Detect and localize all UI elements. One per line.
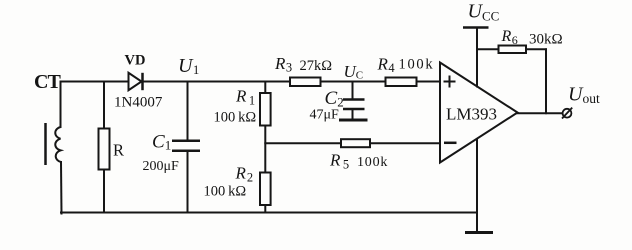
- wire C1 to bottom rail: [187, 152, 189, 213]
- transformer CT core bar: [44, 123, 47, 165]
- svg-text:100k: 100k: [399, 57, 435, 73]
- wire top rail R3-to-R4: [321, 81, 386, 83]
- wire opamp to ground: [476, 140, 478, 232]
- power Ucc bar: [463, 26, 489, 29]
- wire opamp output: [518, 112, 562, 114]
- svg-text:CT: CT: [34, 71, 61, 93]
- wire R6 right: [526, 48, 546, 50]
- resistor R2: [260, 173, 271, 206]
- svg-text:100 kΩ: 100 kΩ: [214, 110, 257, 126]
- svg-text:R: R: [113, 141, 124, 160]
- op-amp U LM393: [440, 63, 518, 163]
- wire Ucc to R6: [477, 48, 499, 50]
- svg-text:LM393: LM393: [446, 105, 497, 124]
- wire R1-R2 middle: [264, 126, 266, 173]
- wire left vertical lower: [60, 162, 63, 214]
- wire R top stub: [103, 82, 105, 129]
- wire bottom rail: [61, 212, 477, 214]
- wire R2 bottom stub: [264, 205, 266, 213]
- wire C2 lower stub: [352, 109, 354, 119]
- wire R6 down to output: [545, 49, 547, 113]
- resistor R: [99, 129, 110, 170]
- opamp minus input sign: [444, 142, 457, 145]
- resistor R4: [386, 78, 417, 87]
- wire node U1 vertical to C1: [187, 82, 189, 141]
- wire Ucc vertical to opamp: [476, 29, 478, 87]
- ground: [465, 231, 493, 234]
- wire top rail diode-to-R3: [144, 81, 291, 83]
- wire top rail R4-to-opamp: [417, 81, 441, 83]
- wire left vertical upper: [60, 82, 62, 128]
- svg-text:200μF: 200μF: [143, 159, 180, 174]
- wire node UC stub to C2: [352, 82, 354, 100]
- resistor R3: [290, 78, 321, 87]
- capacitor C2: [343, 100, 365, 110]
- wire R bottom stub: [103, 170, 105, 213]
- resistor R1: [260, 93, 271, 126]
- svg-text:47μF: 47μF: [310, 108, 340, 123]
- svg-text:27kΩ: 27kΩ: [300, 58, 333, 74]
- svg-text:1N4007: 1N4007: [114, 95, 163, 111]
- svg-text:100 kΩ: 100 kΩ: [204, 184, 247, 200]
- capacitor C1: [172, 141, 200, 151]
- transformer CT winding: [55, 127, 61, 162]
- wire R1 top stub: [264, 82, 266, 94]
- opamp plus input sign: [444, 76, 456, 88]
- svg-text:100k: 100k: [357, 155, 388, 170]
- wire junction to R5: [265, 142, 341, 144]
- output terminal: [562, 108, 572, 119]
- resistor R6: [499, 46, 527, 54]
- ground bar of C2: [339, 119, 368, 122]
- diode VD: [129, 73, 143, 90]
- svg-text:30kΩ: 30kΩ: [529, 32, 563, 48]
- resistor R5: [341, 139, 370, 147]
- wire R5 to opamp minus input: [370, 142, 440, 144]
- svg-text:VD: VD: [125, 53, 146, 69]
- wire top rail left segment: [61, 81, 129, 83]
